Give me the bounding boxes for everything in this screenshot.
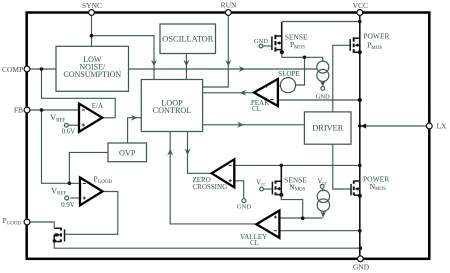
svg-text:FB: FB bbox=[14, 106, 23, 115]
svg-text:0.6V: 0.6V bbox=[62, 129, 75, 136]
svg-text:POWER: POWER bbox=[363, 174, 389, 183]
svg-text:OVP: OVP bbox=[119, 148, 136, 157]
svg-text:SLOPE: SLOPE bbox=[278, 70, 299, 78]
svg-text:SENSE: SENSE bbox=[285, 33, 308, 42]
svg-text:POWER: POWER bbox=[363, 32, 389, 41]
svg-text:DRIVER: DRIVER bbox=[312, 123, 344, 132]
svg-text:OSCILLATOR: OSCILLATOR bbox=[162, 35, 213, 44]
svg-text:0.9V: 0.9V bbox=[61, 202, 74, 209]
svg-text:SENSE: SENSE bbox=[284, 175, 307, 184]
svg-text:GND: GND bbox=[254, 38, 268, 45]
svg-text:GND: GND bbox=[316, 93, 330, 100]
svg-text:CONTROL: CONTROL bbox=[153, 106, 192, 115]
svg-text:GND: GND bbox=[237, 204, 251, 211]
svg-text:RUN: RUN bbox=[221, 1, 237, 10]
svg-text:CL: CL bbox=[250, 239, 259, 247]
svg-text:CROSSING: CROSSING bbox=[193, 183, 228, 191]
svg-text:COMP: COMP bbox=[2, 65, 23, 74]
svg-text:LX: LX bbox=[437, 122, 448, 131]
svg-text:CL: CL bbox=[252, 105, 261, 113]
svg-text:SYNC: SYNC bbox=[82, 1, 102, 10]
svg-text:GND: GND bbox=[353, 262, 370, 271]
svg-text:E/A: E/A bbox=[92, 102, 103, 110]
svg-text:VCC: VCC bbox=[353, 1, 368, 10]
svg-text:CONSUMPTION: CONSUMPTION bbox=[63, 70, 121, 79]
